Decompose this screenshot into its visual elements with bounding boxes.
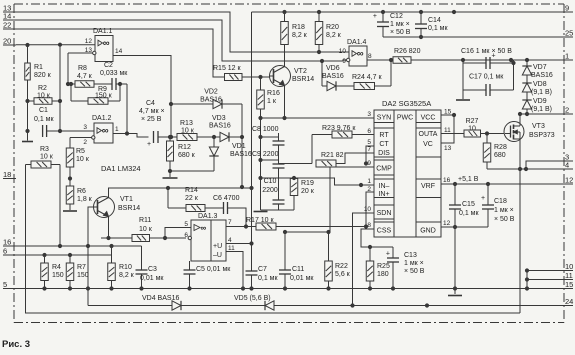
resistor R20 (315, 12, 341, 54)
resistor R3 (26, 146, 61, 168)
capacitor C6 (213, 195, 246, 227)
VT1 collector wire (109, 186, 254, 197)
svg-text:BAS16: BAS16 (209, 123, 231, 130)
svg-text:C16 1 мк × 50 В: C16 1 мк × 50 В (461, 48, 512, 55)
svg-text:DA1.3: DA1.3 (198, 213, 218, 220)
svg-text:25: 25 (565, 29, 573, 38)
svg-text:SDN: SDN (377, 210, 392, 217)
svg-text:BSP373: BSP373 (529, 132, 555, 139)
svg-text:22: 22 (3, 21, 11, 30)
svg-text:8: 8 (367, 222, 371, 229)
svg-text:VRF: VRF (421, 183, 435, 190)
DA2 pin 16 VRF wire +5,1V (441, 176, 562, 186)
svg-text:10 к: 10 к (37, 93, 51, 100)
svg-text:1,8 к: 1,8 к (77, 196, 93, 203)
svg-text:VT2: VT2 (294, 68, 307, 75)
svg-text:R22: R22 (335, 263, 348, 270)
svg-text:8,2 к: 8,2 к (119, 272, 135, 279)
DA2 pin 8 CSS wire (361, 222, 393, 249)
svg-text:24: 24 (565, 297, 573, 306)
wire R3 left rail down (26, 165, 521, 314)
svg-text:CMP: CMP (376, 166, 392, 173)
svg-text:IN+: IN+ (378, 191, 389, 198)
resistor R9 (69, 82, 120, 104)
svg-text:18: 18 (3, 170, 11, 179)
svg-text:C13: C13 (404, 252, 417, 259)
left pin 20 (3, 37, 16, 46)
op-amp DA1.2 (92, 115, 113, 143)
svg-text:× 50 В: × 50 В (390, 29, 411, 36)
IC DA2 SG3525A (374, 99, 441, 237)
capacitor C2 (100, 62, 128, 90)
svg-text:6: 6 (184, 232, 188, 239)
left pin 16 (3, 238, 16, 247)
wire pin20 line (16, 44, 60, 46)
resistor R10 (108, 246, 135, 289)
svg-text:9: 9 (565, 4, 569, 13)
resistor R25 (366, 247, 390, 290)
wire supply rail +12V top (252, 10, 563, 13)
ground at C1 (22, 141, 33, 143)
resistor R13 (158, 120, 197, 141)
resistor R12 (167, 135, 196, 177)
wire IN+ riser (366, 186, 374, 227)
wire bus pin22 to R15 (16, 29, 225, 77)
wire source pins 3 4 (487, 139, 562, 171)
svg-text:3: 3 (367, 111, 371, 118)
resistor R14 (168, 187, 220, 212)
capacitor C3 (136, 246, 165, 290)
right pin 2 (562, 106, 573, 115)
svg-text:R16: R16 (267, 90, 280, 97)
DA1.4 pin 9 circle (342, 58, 350, 65)
left pin 6 (3, 247, 16, 256)
svg-text:GND: GND (420, 228, 436, 235)
svg-text:680: 680 (494, 152, 506, 159)
svg-text:12: 12 (85, 38, 93, 45)
DA2 pin 12 GND wire (441, 220, 455, 227)
svg-text:11: 11 (444, 127, 451, 134)
DA1.1 pin 12 wire (60, 38, 95, 45)
DA2 pin 15 VCC wire (441, 109, 456, 117)
DA2 pin 10 SDN wire (351, 206, 374, 307)
resistor R19 (261, 178, 315, 210)
capacitor C8 (252, 126, 285, 164)
svg-text:× 50 В: × 50 В (494, 216, 515, 223)
left pin 22 (3, 21, 16, 30)
DA1.4 pin 10 label (339, 48, 347, 55)
svg-text:× 50 В: × 50 В (404, 268, 425, 275)
resistor R23 (312, 125, 374, 164)
svg-text:BSR14: BSR14 (292, 76, 314, 83)
svg-text:BAS16: BAS16 (531, 72, 553, 79)
svg-text:VD3: VD3 (212, 115, 226, 122)
resistor R27 (464, 118, 505, 137)
transistor VT2 BSR14 (270, 66, 315, 87)
diode VD9 (522, 98, 552, 116)
wire pin25 line (383, 35, 562, 38)
svg-text:DA1.1: DA1.1 (93, 28, 113, 35)
wire ref node vertical (58, 43, 61, 132)
diode VD2 (171, 89, 244, 189)
svg-text:R27: R27 (466, 118, 479, 125)
left pin 5 (3, 280, 16, 289)
resistor R2 (28, 85, 62, 104)
svg-text:CT: CT (379, 141, 389, 148)
resistor R21 (316, 146, 374, 167)
resistor R4 (41, 255, 64, 289)
svg-text:5: 5 (3, 280, 7, 289)
svg-text:C3: C3 (148, 266, 157, 273)
svg-text:+5,1 В: +5,1 В (458, 176, 479, 183)
wire IN- from R19 (292, 176, 374, 186)
svg-text:VD9: VD9 (533, 98, 547, 105)
DA1.4 output 8 wire (367, 53, 393, 62)
svg-text:7: 7 (367, 146, 371, 153)
svg-text:11: 11 (228, 245, 235, 252)
svg-text:9: 9 (367, 160, 371, 167)
svg-text:R13: R13 (180, 120, 193, 127)
svg-text:10: 10 (468, 126, 476, 133)
capacitor C4 (139, 100, 165, 148)
DA1.2 pin 3 wire (60, 124, 94, 131)
resistor R6 (66, 177, 92, 210)
svg-text:11: 11 (565, 271, 573, 280)
svg-text:7: 7 (228, 219, 232, 226)
svg-text:+: + (147, 141, 151, 148)
resistor R11 (101, 217, 186, 242)
svg-text:R12: R12 (178, 144, 191, 151)
svg-text:∞: ∞ (201, 224, 207, 233)
DA1.1 pin 13 wire (68, 47, 96, 55)
svg-text:BSR14: BSR14 (118, 205, 140, 212)
wire SYN node (259, 111, 374, 120)
diode VD4 (142, 295, 181, 310)
resistor R7 (66, 255, 89, 289)
svg-text:DA1 LM324: DA1 LM324 (101, 164, 141, 173)
svg-text:R21 82: R21 82 (321, 152, 344, 159)
svg-text:C8 1000: C8 1000 (252, 126, 279, 133)
svg-text:4,7 к: 4,7 к (77, 73, 93, 80)
svg-text:VD8: VD8 (533, 81, 547, 88)
DA1.3 pin 6 wire (184, 232, 191, 240)
left pin 13 (3, 4, 16, 13)
svg-text:VD5 (5,6 В): VD5 (5,6 В) (234, 295, 271, 302)
op-amp DA1.1 (93, 28, 113, 62)
wire bus pin14 to DA1.4 pin9 (16, 20, 349, 63)
diode VD1 (170, 135, 252, 171)
VT2 collector wire (284, 45, 286, 67)
wire pins 10 11 tie (525, 269, 562, 289)
svg-text:R17 10 к: R17 10 к (246, 217, 275, 224)
wire C9 top stub (259, 137, 279, 162)
svg-text:SYN: SYN (377, 115, 391, 122)
svg-text:DA1.2: DA1.2 (92, 115, 112, 122)
caption Рис. 3 (2, 339, 30, 350)
svg-text:∞: ∞ (102, 126, 109, 137)
resistor R28 (483, 134, 507, 170)
right pin 4 (562, 161, 573, 170)
svg-text:VD7: VD7 (533, 64, 547, 71)
right pin 25 (562, 29, 573, 38)
svg-text:(9,1 В): (9,1 В) (531, 89, 552, 96)
wire pin2 drain (518, 112, 562, 115)
label DA1 LM324 (101, 164, 141, 173)
wire C8 rail node (259, 118, 279, 139)
svg-text:8,2 к: 8,2 к (292, 32, 308, 39)
svg-text:8: 8 (368, 53, 372, 60)
svg-text:16: 16 (443, 177, 451, 184)
capacitor C13 (386, 247, 425, 290)
right pin 10 (562, 262, 573, 271)
svg-text:10 к: 10 к (40, 154, 54, 161)
svg-text:1: 1 (115, 126, 119, 133)
svg-text:R28: R28 (494, 144, 507, 151)
DA2 pin 11 13 OUTA VC wires (441, 115, 464, 152)
svg-text:C2: C2 (104, 62, 113, 69)
svg-text:C6 4700: C6 4700 (213, 195, 240, 202)
svg-text:C1: C1 (39, 107, 48, 114)
svg-text:× 25 В: × 25 В (141, 116, 162, 123)
svg-text:DIS: DIS (378, 150, 390, 157)
DA1.3 pin 5 wire (165, 221, 191, 238)
svg-text:0,01 мк: 0,01 мк (290, 275, 314, 282)
left pin 14 (3, 12, 16, 21)
svg-text:BAS16: BAS16 (322, 73, 344, 80)
svg-text:15: 15 (444, 109, 452, 116)
svg-text:6: 6 (367, 128, 371, 135)
svg-text:BAS16: BAS16 (230, 151, 252, 158)
DA1.2 pin 2 wire (70, 136, 95, 146)
svg-text:VCC: VCC (421, 115, 436, 122)
wire C9 bottom to R21 (279, 163, 313, 165)
svg-text:C10: C10 (264, 178, 277, 185)
svg-text:150: 150 (52, 272, 64, 279)
DA2 pin 9 CMP wire (329, 160, 375, 232)
svg-text:4: 4 (228, 237, 232, 244)
svg-text:C11: C11 (292, 266, 304, 273)
svg-text:(9,1 В): (9,1 В) (531, 106, 552, 113)
wire supply drop to +U/C7 (250, 12, 253, 266)
wire output to pin1 (411, 58, 562, 61)
svg-text:VD2: VD2 (204, 89, 218, 96)
svg-text:R1: R1 (34, 64, 43, 71)
svg-text:∞: ∞ (357, 49, 364, 60)
right pin 9 (562, 4, 573, 13)
svg-text:20: 20 (3, 37, 11, 46)
svg-text:0,1 мк: 0,1 мк (34, 116, 54, 123)
wire C4 node dot (169, 135, 172, 138)
resistor R17 (246, 217, 368, 230)
svg-text:C17 0,1 мк: C17 0,1 мк (469, 74, 504, 81)
wire pin13 drop to R8 (66, 53, 69, 86)
left pin 18 (3, 170, 16, 179)
svg-text:DA2 SG3525A: DA2 SG3525A (382, 99, 431, 108)
svg-text:13: 13 (85, 47, 93, 54)
right pin 3 (562, 153, 573, 162)
svg-text:VD6: VD6 (326, 65, 340, 72)
svg-text:10: 10 (364, 206, 372, 213)
svg-text:1 мк ×: 1 мк × (494, 207, 514, 214)
op-amp DA1.4 (347, 39, 367, 66)
resistor R22 (325, 232, 351, 290)
VT1 emitter wire (107, 217, 110, 240)
wire rail to ground (259, 160, 262, 210)
DA1.3 output 7 wire (226, 219, 256, 228)
svg-text:2: 2 (367, 186, 371, 193)
svg-text:DA1.4: DA1.4 (347, 39, 367, 46)
svg-text:R11: R11 (139, 217, 151, 224)
svg-text:680 к: 680 к (178, 152, 196, 159)
resistor R5 (66, 138, 89, 179)
svg-text:C5 0,01 мк: C5 0,01 мк (196, 266, 231, 273)
svg-text:2: 2 (565, 106, 569, 115)
resistor R18 (281, 12, 308, 45)
wire GND pin to bus (453, 225, 488, 290)
svg-text:C9 2200: C9 2200 (252, 151, 279, 158)
wire R3 right drop (58, 165, 61, 248)
svg-text:12: 12 (443, 220, 451, 227)
diode VD5 (234, 295, 274, 310)
svg-text:R24 4,7 к: R24 4,7 к (352, 74, 382, 81)
svg-text:3: 3 (83, 124, 87, 131)
right pin 1 (562, 52, 573, 61)
svg-text:CSS: CSS (377, 228, 392, 235)
right pin 15 (562, 280, 573, 289)
DA1.2 output 1 wire (113, 126, 149, 137)
svg-text:0,01 мк: 0,01 мк (140, 275, 164, 282)
wire ground bus pin5 pin15 (16, 287, 562, 290)
svg-text:R25: R25 (377, 263, 390, 270)
svg-text:R19: R19 (301, 180, 314, 187)
wire oscillator ground (261, 209, 295, 211)
svg-text:9: 9 (342, 58, 346, 65)
svg-text:VC: VC (423, 141, 433, 148)
VT1 base wire (86, 207, 93, 306)
ground at C17 (456, 90, 470, 100)
svg-text:C18: C18 (494, 198, 507, 205)
svg-text:10: 10 (339, 48, 347, 55)
svg-text:20 к: 20 к (301, 188, 315, 195)
wire C2 to DA1.2 out (118, 82, 128, 135)
svg-text:2200: 2200 (262, 187, 278, 194)
capacitor C17 (463, 60, 514, 96)
transistor VT1 BSR14 (94, 196, 141, 218)
diode VD6 (322, 61, 354, 91)
svg-text:R2: R2 (38, 85, 47, 92)
svg-text:R26 820: R26 820 (394, 48, 421, 55)
svg-text:+U: +U (213, 243, 222, 250)
svg-text:180: 180 (377, 271, 389, 278)
svg-text:BAS16: BAS16 (200, 97, 222, 104)
ground at GND bus (448, 289, 462, 296)
svg-text:820 к: 820 к (34, 72, 52, 79)
svg-text:12: 12 (565, 176, 573, 185)
svg-text:R5: R5 (76, 148, 85, 155)
svg-text:VT3: VT3 (532, 123, 545, 130)
capacitor C10 (262, 178, 284, 210)
svg-text:–U: –U (213, 252, 222, 259)
svg-text:1 к: 1 к (267, 98, 277, 105)
svg-text:10 к: 10 к (76, 156, 90, 163)
svg-text:R6: R6 (77, 188, 86, 195)
capacitor C11 (279, 232, 314, 290)
svg-text:C14: C14 (428, 17, 441, 24)
svg-text:2: 2 (83, 139, 87, 146)
resistor R15 (213, 65, 270, 81)
capacitor C18 (481, 184, 515, 227)
svg-text:8,2 к: 8,2 к (326, 32, 342, 39)
resistor R8 (68, 65, 112, 87)
svg-text:VT1: VT1 (120, 196, 133, 203)
svg-text:5: 5 (184, 221, 188, 228)
ground at oscillator (254, 211, 268, 213)
svg-text:22 к: 22 к (185, 195, 199, 202)
svg-text:10 к: 10 к (139, 226, 153, 233)
svg-text:R23 9,76 к: R23 9,76 к (322, 125, 356, 132)
svg-text:0,033 мк: 0,033 мк (100, 70, 128, 77)
svg-text:∞: ∞ (103, 38, 110, 49)
svg-text:+: + (373, 13, 377, 20)
DA1.3 pin 11 wire (226, 245, 245, 290)
resistor R1 (25, 43, 52, 140)
svg-text:R8: R8 (78, 65, 87, 72)
svg-text:VD1: VD1 (232, 143, 246, 150)
wire bus pin13 to DA1.4 pin10 (16, 12, 349, 52)
svg-text:RT: RT (379, 132, 389, 139)
svg-text:15: 15 (565, 280, 573, 289)
svg-text:C15: C15 (462, 201, 475, 208)
right pin 24 (562, 297, 573, 306)
capacitor C12 (373, 12, 411, 37)
capacitor C15 (449, 184, 479, 227)
svg-text:150 к: 150 к (95, 93, 113, 100)
diode VD8 (522, 81, 552, 100)
capacitor C1 (34, 107, 94, 137)
svg-text:13: 13 (444, 145, 452, 152)
right pin 11 (562, 271, 573, 280)
wire CMP comp net (283, 230, 330, 233)
resistor R16 (257, 77, 280, 118)
svg-text:PWC: PWC (397, 115, 413, 122)
svg-text:10: 10 (565, 262, 573, 271)
svg-text:1 мк ×: 1 мк × (404, 260, 424, 267)
svg-text:5: 5 (367, 139, 371, 146)
capacitor C5 (184, 261, 232, 290)
wire line16 (16, 244, 142, 247)
svg-text:0,1 мк: 0,1 мк (428, 25, 448, 32)
VT2 emitter wire (283, 86, 286, 120)
svg-text:OUTA: OUTA (419, 131, 438, 138)
resistor R26 (393, 48, 421, 63)
DA1.3 pin 4 wire (226, 237, 252, 244)
capacitor C9 (252, 151, 285, 200)
op-amp DA1.3 (191, 213, 226, 261)
resistor R24 (352, 60, 391, 90)
ground at R12 (163, 177, 178, 179)
svg-text:150: 150 (77, 272, 89, 279)
transistor VT3 BSP373 (504, 114, 555, 142)
svg-text:14: 14 (115, 48, 123, 55)
svg-text:0,1 мк: 0,1 мк (258, 275, 278, 282)
capacitor C14 (415, 12, 448, 37)
diode VD7 (522, 60, 553, 83)
svg-text:R3: R3 (40, 146, 49, 153)
capacitor C16 (461, 48, 515, 69)
svg-text:C7: C7 (258, 266, 267, 273)
svg-text:16: 16 (3, 238, 11, 247)
svg-text:R10: R10 (119, 264, 132, 271)
